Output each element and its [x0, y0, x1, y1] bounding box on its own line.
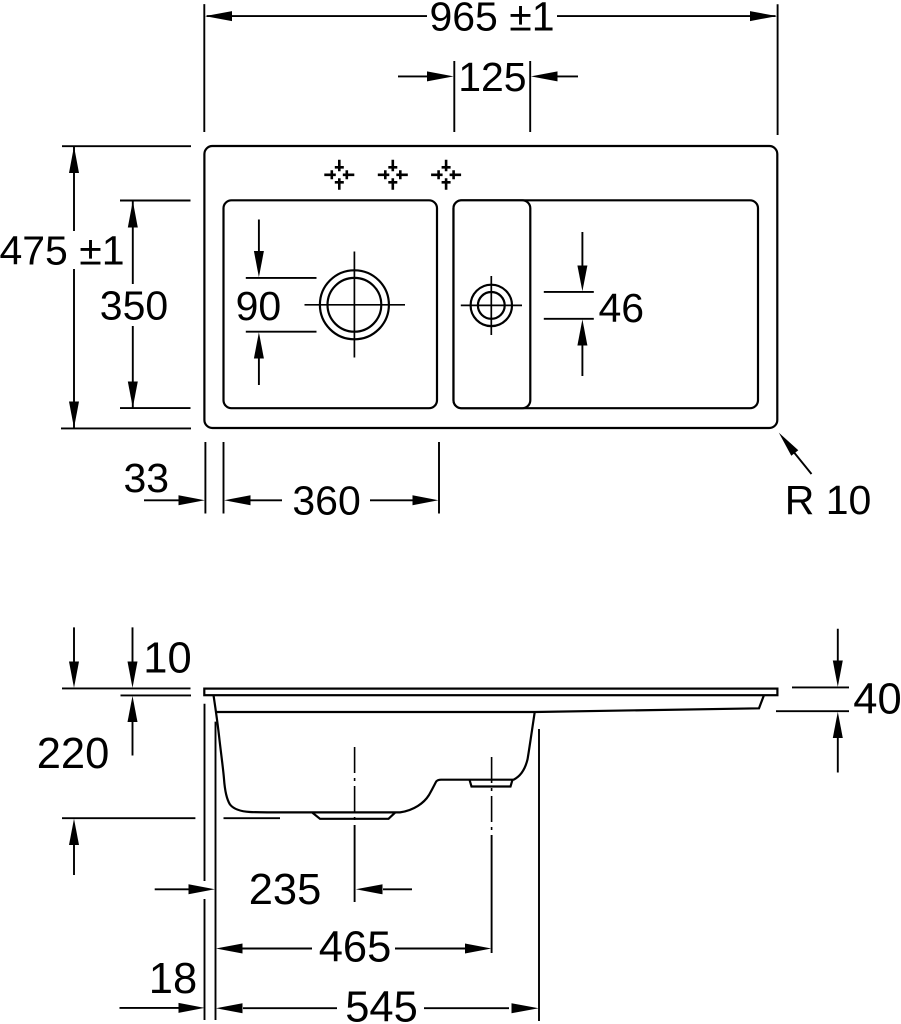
main bowl drain recess (section): [312, 812, 395, 818]
dim 475 extension lines: [61, 146, 191, 428]
arrowhead 46 down: [577, 266, 587, 292]
dim 46 tangent lines: [544, 292, 594, 319]
arrowhead 965 right: [750, 11, 777, 21]
svg-text:965 ±1: 965 ±1: [429, 0, 554, 40]
arrowhead 90 up: [254, 332, 264, 358]
dim 220 arrow stems: [73, 627, 75, 875]
dim 40 extension lines: [776, 687, 849, 711]
dim 125 extension lines: [454, 61, 530, 132]
main bowl outline: [224, 200, 438, 408]
dim 220 bottom extension line: [62, 817, 280, 819]
main bowl drain centerline lower (solid): [354, 825, 356, 902]
dim 965 extension lines: [204, 4, 777, 135]
arrowhead R10 leader: [779, 433, 799, 456]
dim 33 line: [144, 499, 180, 501]
svg-text:235: 235: [249, 866, 322, 914]
main bowl drain circle inner: [328, 278, 382, 332]
dim 90 tangent lines: [246, 278, 317, 332]
dim 33 extension lines: [205, 442, 223, 514]
arrowhead 46 up: [577, 319, 587, 345]
arrowheads section view: [69, 661, 843, 1014]
dim 18 arrow stem: [120, 1007, 179, 1009]
svg-text:90: 90: [236, 283, 282, 329]
arrowhead 220 down: [69, 662, 79, 688]
arrowhead 40 up: [833, 712, 843, 738]
small bowl drain centerline lower (solid): [491, 835, 493, 953]
svg-text:465: 465: [319, 924, 392, 972]
main bowl drain centerline: [354, 747, 356, 825]
centerlines section: [355, 747, 492, 835]
svg-text:10: 10: [143, 635, 191, 683]
dim 465 line: [242, 948, 466, 950]
arrowhead 360 right (points right): [413, 495, 439, 505]
arrowhead 18 (points right): [179, 1003, 205, 1013]
main drain centerlines: [305, 252, 406, 358]
extension line bowl wall: [215, 722, 217, 1020]
extension line small bowl outer wall: [538, 729, 540, 1021]
svg-text:46: 46: [598, 285, 644, 331]
drainer area outline: [454, 200, 759, 408]
svg-text:475 ±1: 475 ±1: [0, 228, 125, 274]
arrowhead 33 (points right): [179, 495, 205, 505]
bowl profile (section): [214, 696, 535, 813]
arrowhead 350 bottom: [128, 382, 138, 408]
main bowl drain circle outer: [320, 270, 389, 339]
arrowhead 350 top: [128, 201, 138, 228]
extension line sink left edge: [204, 704, 206, 1020]
svg-text:18: 18: [149, 955, 197, 1003]
dim 90 arrow stems: [258, 220, 260, 386]
arrowhead 965 left: [205, 11, 232, 21]
svg-text:R 10: R 10: [785, 477, 872, 523]
dim 360 line: [249, 442, 439, 514]
dim 235 line: [155, 888, 412, 890]
arrowhead 475 bottom: [69, 402, 79, 429]
dim 350 line: [132, 201, 134, 409]
arrowhead 235 left (points right): [189, 884, 215, 894]
dim 475 line: [73, 146, 75, 428]
arrowhead 125 left (points right): [427, 71, 454, 81]
drainer underside line: [217, 695, 764, 712]
arrowhead 545 right (points right): [512, 1003, 539, 1013]
dim 40 arrow stems: [837, 629, 839, 773]
dim 10 arrow stems: [132, 627, 134, 755]
arrowhead 90 down: [254, 251, 264, 277]
svg-text:33: 33: [123, 455, 169, 501]
arrowhead 220 up: [69, 819, 79, 845]
arrowhead 40 down: [833, 661, 843, 687]
faucet hole markers: [324, 160, 461, 190]
small bowl drain circle inner: [478, 292, 505, 319]
dim 545 line: [243, 1007, 509, 1009]
dim 46 arrow stems: [581, 232, 583, 376]
dim 125 line: [398, 75, 578, 77]
faucet marker 1: [324, 160, 354, 190]
arrowhead 10 down: [128, 662, 138, 688]
arrowheads top view: [69, 11, 798, 505]
arrowhead 475 top: [69, 146, 79, 173]
small bowl drain centerline: [491, 757, 493, 835]
dim 965 line: [207, 15, 776, 17]
drain crosshairs: [305, 252, 523, 358]
faucet marker 3: [431, 160, 461, 190]
arrowhead 545 left (points left): [216, 1003, 243, 1013]
arrowhead 360 left (points left): [224, 495, 250, 505]
svg-text:350: 350: [100, 283, 168, 329]
dim 10 extension lines: [62, 688, 191, 695]
rim bar (section): [204, 689, 777, 696]
faucet marker 2: [378, 160, 408, 190]
small bowl drain recess (section): [470, 780, 513, 787]
arrowhead 125 right (points left): [531, 71, 558, 81]
dim 350 extension lines: [120, 201, 191, 409]
R10 leader line: [794, 452, 812, 474]
sink outer outline (top view): [204, 146, 777, 428]
arrowhead 10 up: [128, 696, 138, 722]
arrowhead 465 right (points right): [465, 944, 491, 954]
small bowl outline: [454, 200, 531, 408]
arrowhead 235 right (points left): [356, 884, 383, 894]
arrowhead 465 left (points left): [216, 944, 243, 954]
svg-text:220: 220: [37, 730, 110, 778]
small drain centerlines: [461, 276, 522, 335]
svg-text:360: 360: [292, 478, 360, 524]
svg-text:545: 545: [345, 983, 418, 1024]
svg-text:40: 40: [853, 676, 901, 724]
small bowl drain circle outer: [471, 285, 512, 326]
svg-text:125: 125: [458, 54, 526, 100]
